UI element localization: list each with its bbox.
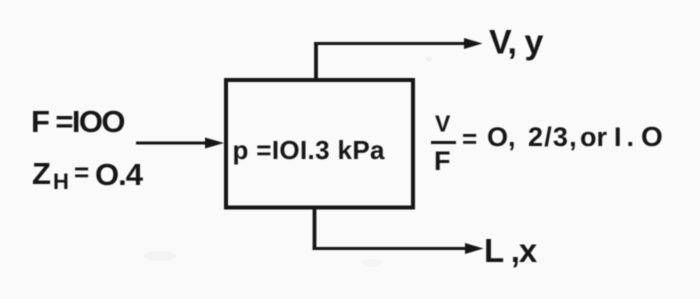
feed arrow (136, 138, 224, 149)
svg-text:or: or (580, 122, 607, 152)
svg-text:I: I (614, 122, 622, 152)
svg-text:2/3,: 2/3, (528, 122, 578, 152)
vapor arrowhead (464, 38, 483, 49)
svg-text:L ,x: L ,x (484, 232, 538, 269)
svg-text:H: H (53, 169, 69, 194)
vapor line riser (314, 42, 318, 81)
flash drum vessel (226, 80, 413, 208)
liquid line downcomer (313, 207, 317, 251)
svg-text:V, y: V, y (489, 24, 543, 62)
svg-text:F: F (434, 146, 451, 176)
svg-text:.: . (627, 122, 635, 152)
svg-text:p =IOI.3 kPa: p =IOI.3 kPa (233, 135, 386, 165)
svg-text:=: = (74, 157, 89, 187)
svg-text:O: O (641, 121, 663, 152)
svg-text:Z: Z (32, 156, 51, 191)
svg-text:V: V (435, 111, 451, 137)
label = 0, 2/3, or 1.0 (462, 121, 663, 154)
label ZH=0.4 (32, 156, 144, 194)
svg-text:=: = (462, 124, 477, 154)
fraction V/F (431, 111, 456, 177)
svg-text:O.4: O.4 (95, 157, 144, 192)
svg-text:F =IOO: F =IOO (31, 104, 124, 139)
vapor line horizontal run (314, 42, 466, 45)
liquid arrowhead (465, 243, 484, 254)
svg-text:O,: O, (487, 122, 516, 152)
liquid line horizontal run (313, 247, 467, 250)
